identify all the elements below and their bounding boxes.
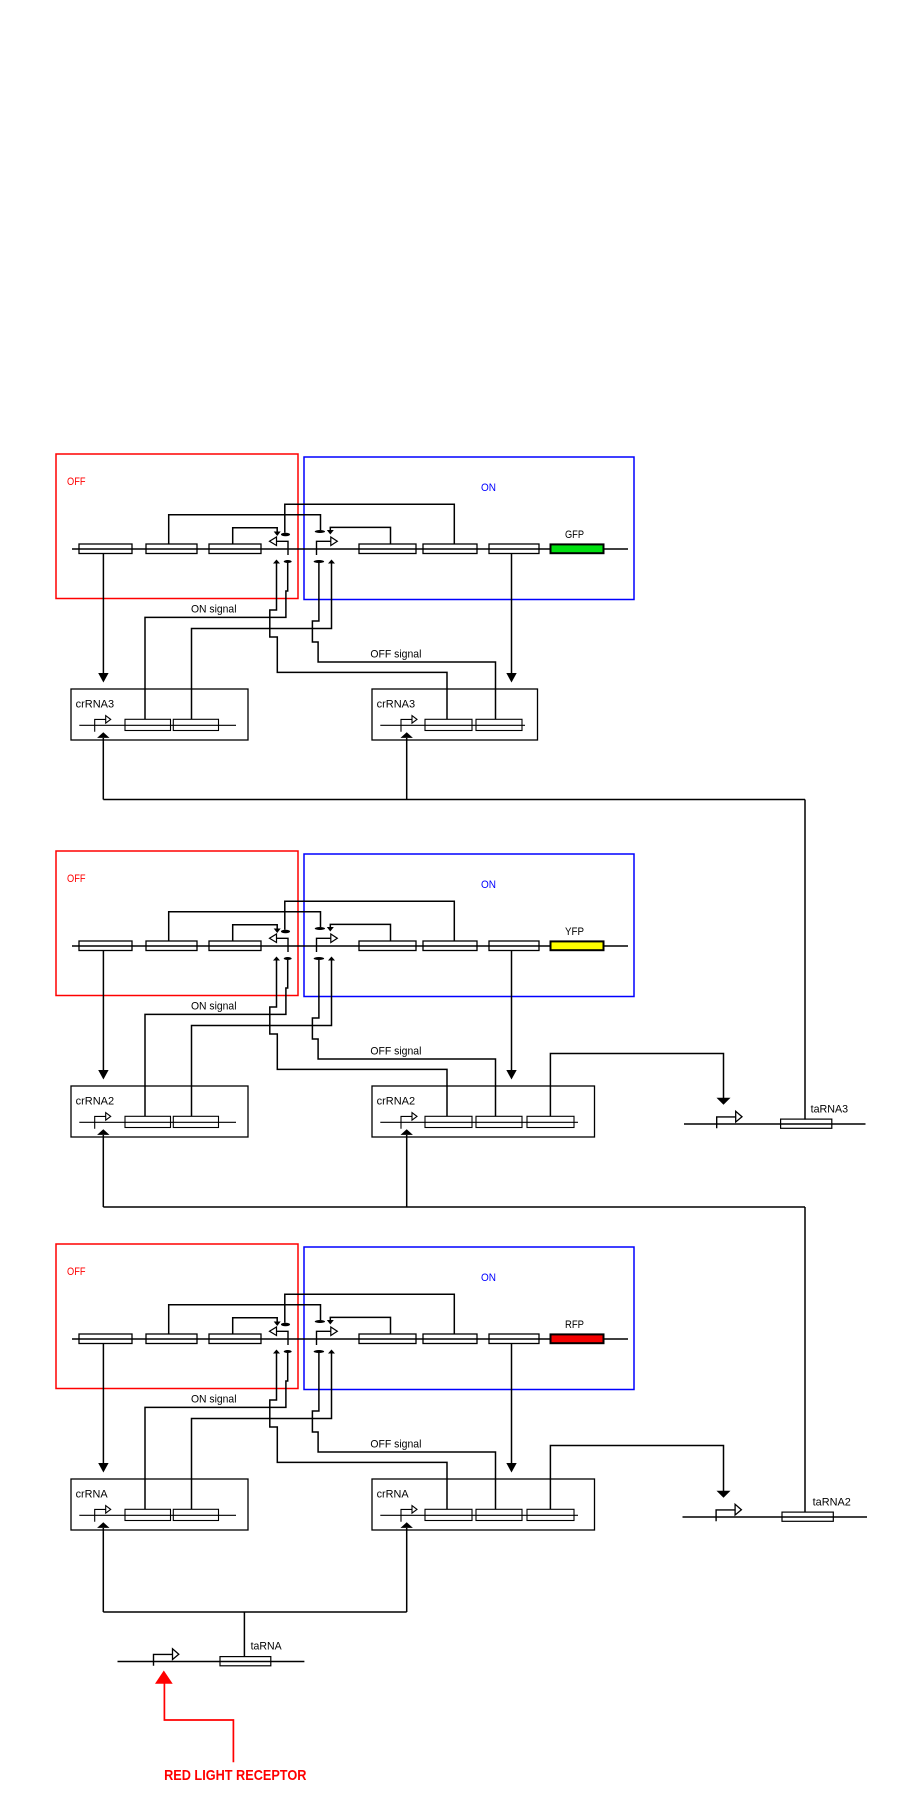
gene element OFF-1 stage 1 [79,544,132,554]
gene element ON-2 stage 2 [423,941,477,951]
crRNA2 left element 2 stage 2 [173,1116,218,1127]
arrowhead into crRNA2 right box top stage 2 [506,1070,516,1080]
wire ON-signal-2 from crRNA3 left r2 to ON activation arrow stage 1 [192,564,332,720]
svg-text:OFF signal: OFF signal [370,1045,421,1057]
wire: main gene line stage 2 [72,945,628,947]
taRNA gene rect [220,1657,271,1666]
activation arrow into crRNA right box bottom stage 3 [401,1522,413,1528]
ON box stage 2 [304,854,634,997]
wire from feedback line up to crRNA2 right box stage 2 [406,1135,408,1207]
arrowhead into crRNA2 left box top stage 2 [98,1070,108,1080]
wire: crRNA right inner line stage 3 [380,1514,578,1516]
svg-text:ON: ON [481,1272,496,1284]
wire ON-3 output to crRNA3 right stage 1 [511,554,513,674]
wire OFF-1 output to crRNA left stage 3 [102,1344,104,1464]
crRNA3 right element 1 stage 1 [425,719,472,730]
taRNA3 gene rect [781,1119,832,1128]
svg-text:OFF: OFF [67,476,86,488]
crRNA right box stage 3 [372,1479,595,1530]
promoter in crRNA left box stage 3 [95,1509,106,1521]
terminator site above ON promoter stage 2 [315,927,325,930]
wire from feedback line up to crRNA3 left box stage 1 [102,738,104,800]
wire OFF-1 output to crRNA2 left stage 2 [102,951,104,1071]
wire OFF-2 to ON terminator site stage 1 [169,515,321,545]
svg-text:ON signal: ON signal [191,603,237,615]
wire: main gene line stage 1 [72,548,628,550]
crRNA3 left box stage 1 [71,689,248,740]
repression arrow onto P-OFF stage 1 [274,532,281,537]
repression arrow onto P-OFF stage 3 [274,1322,281,1327]
svg-text:ON: ON [481,879,496,891]
wire: crRNA3 left inner line stage 1 [79,724,236,726]
activation arrow below P-ON stage 3 [328,1350,335,1354]
taRNA2 element line [683,1516,868,1518]
wire: red light receptor path [164,1682,233,1762]
wire ON-signal-2 from crRNA left r2 to ON activation arrow stage 3 [192,1354,332,1510]
activation arrow into crRNA3 left box bottom stage 1 [97,732,109,738]
gene element ON-1 stage 3 [359,1334,416,1344]
arrowhead onto taRNA2 promoter stage 2 [717,1098,731,1105]
arrowhead into crRNA3 right box top stage 1 [506,673,516,683]
forward promoter P-ON stage 2 [317,938,331,952]
reverse promoter P-OFF stage 1 [277,541,289,555]
OFF box stage 1 [56,454,298,599]
activation arrow below P-OFF stage 2 [273,957,280,961]
svg-text:OFF: OFF [67,873,86,885]
wire OFF-signal from crRNA3 right r2 to ON terminator site stage 1 [312,563,495,719]
activation arrow below P-OFF stage 1 [273,560,280,564]
svg-text:crRNA: crRNA [377,1489,410,1501]
terminator site below OFF promoter stage 3 [284,1350,292,1353]
wire OFF-signal from crRNA2 right r2 to ON terminator site stage 2 [312,960,495,1116]
promoter of taRNA [154,1654,173,1665]
svg-text:crRNA2: crRNA2 [377,1096,416,1108]
svg-text:ON signal: ON signal [191,1000,237,1012]
repression arrow onto P-OFF stage 2 [274,929,281,934]
gene element ON-2 stage 3 [423,1334,477,1344]
reverse promoter P-OFF stage 3 [277,1331,289,1345]
svg-text:crRNA3: crRNA3 [377,699,416,711]
wire from feedback line up to crRNA right box stage 3 [406,1528,408,1612]
gene element OFF-3 stage 2 [209,941,261,951]
promoter in crRNA2 right box stage 2 [401,1116,412,1128]
crRNA2 right element 3 stage 2 [527,1116,574,1127]
wire OFF-signal-2 from crRNA right r1 to OFF activation arrow stage 3 [270,1354,447,1510]
red light receptor activation arrow [155,1671,173,1684]
gene element OFF-2 stage 2 [146,941,197,951]
taRNA2 gene rect [782,1512,833,1521]
wire: crRNA3 right inner line stage 1 [380,724,525,726]
gene element ON-3 stage 2 [489,941,539,951]
wire: stage1 feedback down to taRNA3 [804,800,806,1120]
wire from feedback line up to crRNA2 left box stage 2 [102,1135,104,1207]
svg-text:RED LIGHT RECEPTOR: RED LIGHT RECEPTOR [164,1767,306,1784]
wire ON-2 to OFF terminator site stage 1 [285,504,455,544]
repression arrow onto P-ON stage 3 [327,1320,334,1325]
OFF box stage 3 [56,1244,298,1389]
repression arrow onto P-ON stage 1 [327,530,334,535]
taRNA3 element line [684,1123,866,1125]
terminator site below OFF promoter stage 2 [284,957,292,960]
svg-text:ON: ON [481,482,496,494]
terminator site below ON promoter stage 1 [314,560,325,563]
crRNA left element 1 stage 3 [125,1509,171,1520]
activation arrow into crRNA2 left box bottom stage 2 [97,1129,109,1135]
promoter in crRNA2 left box stage 2 [95,1116,106,1128]
activation arrow into crRNA2 right box bottom stage 2 [401,1129,413,1135]
svg-text:OFF signal: OFF signal [370,648,421,660]
wire ON-3 output to crRNA right stage 3 [511,1344,513,1464]
wire ON-1 to P-ON arrow stage 2 [330,924,390,941]
wire OFF-1 output to crRNA3 left stage 1 [102,554,104,674]
reverse promoter P-OFF stage 2 [277,938,289,952]
ON box stage 3 [304,1247,634,1390]
reporter gene YFP stage 2 [551,941,604,950]
svg-text:OFF: OFF [67,1266,86,1278]
gene element OFF-2 stage 3 [146,1334,197,1344]
ON box stage 1 [304,457,634,600]
wire ON-2 to OFF terminator site stage 2 [285,901,455,941]
wire: feedback bus stage 1 [103,799,805,801]
gene element OFF-1 stage 3 [79,1334,132,1344]
crRNA3 right box stage 1 [372,689,538,740]
wire ON-signal from crRNA2 left r1 to OFF terminator site stage 2 [145,960,288,1116]
gene element ON-2 stage 1 [423,544,477,554]
crRNA right element 2 stage 3 [476,1509,522,1520]
svg-text:crRNA2: crRNA2 [76,1096,115,1108]
svg-text:taRNA: taRNA [251,1640,283,1652]
promoter in crRNA3 left box stage 1 [95,719,106,731]
crRNA2 right element 1 stage 2 [425,1116,472,1127]
wire ON-1 to P-ON arrow stage 3 [330,1317,390,1334]
wire OFF-3 to P-OFF arrow stage 3 [233,1318,278,1335]
wire ON-2 to OFF terminator site stage 3 [285,1294,455,1334]
svg-text:GFP: GFP [565,529,584,541]
wire: crRNA2 right inner line stage 2 [380,1121,578,1123]
wire: feedback bus stage 3 [103,1611,406,1613]
activation arrow below P-OFF stage 3 [273,1350,280,1354]
promoter of taRNA3 [717,1117,736,1128]
promoter in crRNA3 right box stage 1 [401,719,412,731]
svg-text:taRNA2: taRNA2 [813,1496,851,1508]
wire from feedback line up to crRNA left box stage 3 [102,1528,104,1612]
taRNA element line [118,1661,305,1663]
svg-text:YFP: YFP [565,926,584,938]
crRNA2 left box stage 2 [71,1086,248,1137]
wire crRNA2 right r3 to taRNA2 promoter stage 2 [550,1054,723,1117]
terminator site above OFF promoter stage 1 [281,533,290,536]
gene element OFF-3 stage 1 [209,544,261,554]
crRNA right element 3 stage 3 [527,1509,574,1520]
wire: stage2 feedback down to taRNA2 [804,1207,806,1512]
terminator site below ON promoter stage 2 [314,957,325,960]
wire OFF-signal from crRNA right r2 to ON terminator site stage 3 [312,1353,495,1509]
gene element ON-1 stage 1 [359,544,416,554]
wire: feedback bus stage 2 [103,1206,805,1208]
reporter gene GFP stage 1 [551,544,604,553]
wire: crRNA2 left inner line stage 2 [79,1121,236,1123]
terminator site above OFF promoter stage 2 [281,930,290,933]
terminator site above ON promoter stage 1 [315,530,325,533]
svg-text:OFF signal: OFF signal [370,1438,421,1450]
terminator site above ON promoter stage 3 [315,1320,325,1323]
wire OFF-2 to ON terminator site stage 2 [169,912,321,942]
crRNA left box stage 3 [71,1479,248,1530]
promoter of taRNA2 [716,1510,735,1521]
wire OFF-3 to P-OFF arrow stage 2 [233,925,278,942]
gene element ON-3 stage 1 [489,544,539,554]
gene element ON-1 stage 2 [359,941,416,951]
wire from feedback line up to crRNA3 right box stage 1 [406,738,408,800]
wire: tap down to taRNA stage 3 [243,1612,245,1656]
repression arrow onto P-ON stage 2 [327,927,334,932]
svg-text:RFP: RFP [565,1319,584,1331]
arrowhead into crRNA left box top stage 3 [98,1463,108,1473]
gene element OFF-2 stage 1 [146,544,197,554]
crRNA3 left element 1 stage 1 [125,719,171,730]
svg-text:ON signal: ON signal [191,1393,237,1405]
crRNA2 left element 1 stage 2 [125,1116,171,1127]
activation arrow below P-ON stage 1 [328,560,335,564]
wire ON-signal from crRNA3 left r1 to OFF terminator site stage 1 [145,563,288,719]
activation arrow into crRNA3 right box bottom stage 1 [401,732,413,738]
svg-text:taRNA3: taRNA3 [811,1103,849,1115]
terminator site below ON promoter stage 3 [314,1350,325,1353]
wire: crRNA left inner line stage 3 [79,1514,236,1516]
crRNA3 right element 2 stage 1 [476,719,522,730]
wire ON-signal-2 from crRNA2 left r2 to ON activation arrow stage 2 [192,961,332,1117]
wire crRNA right r3 to taRNA1 promoter stage 3 [550,1446,723,1510]
wire ON-1 to P-ON arrow stage 1 [330,527,390,544]
svg-text:crRNA3: crRNA3 [76,699,115,711]
wire ON-3 output to crRNA2 right stage 2 [511,951,513,1071]
crRNA2 right box stage 2 [372,1086,595,1137]
activation arrow into crRNA left box bottom stage 3 [97,1522,109,1528]
arrowhead into crRNA right box top stage 3 [506,1463,516,1473]
wire OFF-signal-2 from crRNA3 right r1 to OFF activation arrow stage 1 [270,564,447,720]
wire ON-signal from crRNA left r1 to OFF terminator site stage 3 [145,1353,288,1509]
wire: main gene line stage 3 [72,1338,628,1340]
reporter gene RFP stage 3 [551,1334,604,1343]
wire OFF-signal-2 from crRNA2 right r1 to OFF activation arrow stage 2 [270,961,447,1117]
OFF box stage 2 [56,851,298,996]
svg-text:crRNA: crRNA [76,1489,109,1501]
crRNA right element 1 stage 3 [425,1509,472,1520]
gene element OFF-1 stage 2 [79,941,132,951]
forward promoter P-ON stage 3 [317,1331,331,1345]
wire OFF-3 to P-OFF arrow stage 1 [233,528,278,545]
wire OFF-2 to ON terminator site stage 3 [169,1305,321,1335]
forward promoter P-ON stage 1 [317,541,331,555]
arrowhead onto taRNA1 promoter stage 3 [717,1491,731,1498]
activation arrow below P-ON stage 2 [328,957,335,961]
crRNA3 left element 2 stage 1 [173,719,218,730]
crRNA left element 2 stage 3 [173,1509,218,1520]
arrowhead into crRNA3 left box top stage 1 [98,673,108,683]
terminator site below OFF promoter stage 1 [284,560,292,563]
promoter in crRNA right box stage 3 [401,1509,412,1521]
crRNA2 right element 2 stage 2 [476,1116,522,1127]
terminator site above OFF promoter stage 3 [281,1323,290,1326]
gene element OFF-3 stage 3 [209,1334,261,1344]
gene element ON-3 stage 3 [489,1334,539,1344]
